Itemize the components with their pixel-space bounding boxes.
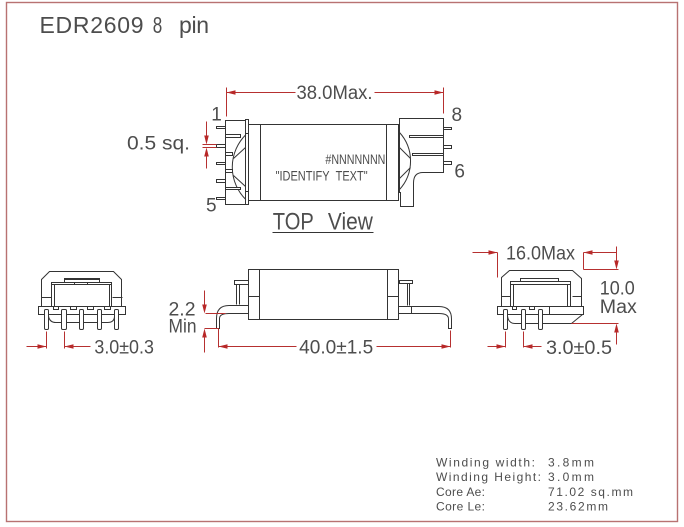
svg-text:16.0Max: 16.0Max bbox=[506, 244, 575, 265]
dimension 38.0Max extension line right bbox=[443, 88, 445, 114]
core outline (right end view) bbox=[502, 271, 582, 307]
body (front view) bbox=[249, 270, 399, 320]
pin 2 (left end view) bbox=[62, 310, 67, 330]
bobbin skirt (right end view) bbox=[508, 315, 583, 324]
svg-text:View: View bbox=[328, 209, 374, 236]
core gap ticks (right end view) bbox=[502, 296, 582, 298]
dimension 16.0Max extension lines bbox=[498, 253, 584, 278]
svg-text:5: 5 bbox=[206, 196, 217, 217]
bobbin body (top view) bbox=[249, 125, 399, 201]
dimension 3.0±0.3 extension lines bbox=[47, 332, 65, 349]
left top pin stub bbox=[235, 281, 249, 305]
svg-text:38.0Max.: 38.0Max. bbox=[297, 83, 373, 104]
bobbin flange rect (right end view) bbox=[511, 282, 571, 307]
pin 6 (top view) bbox=[444, 162, 452, 165]
base plate (left end view) bbox=[39, 307, 126, 315]
dimension 3.0±0.3 line + arrows bbox=[27, 344, 91, 349]
dimension 16.0Max line + arrows bbox=[473, 250, 617, 255]
pin 4 (left end view) bbox=[98, 310, 102, 330]
svg-text:Core Ae:: Core Ae: bbox=[436, 485, 485, 499]
svg-text:EDR2609: EDR2609 bbox=[40, 12, 144, 38]
core gap ticks bbox=[42, 297, 123, 299]
TOP View label bbox=[273, 209, 374, 236]
pin 3 (top view) bbox=[217, 163, 226, 165]
left bobbin flange (top view) bbox=[226, 120, 249, 205]
right top pin stub bbox=[400, 281, 413, 306]
core top boss (right end view) bbox=[521, 279, 559, 282]
svg-text:3.0±0.3: 3.0±0.3 bbox=[94, 338, 153, 359]
base plate notches (right end view) bbox=[513, 307, 550, 315]
pin 5 (left end view) bbox=[115, 310, 119, 330]
svg-text:Min: Min bbox=[169, 317, 197, 338]
dimension 2.2 Min texts bbox=[169, 300, 197, 338]
pin 8 (top view) bbox=[444, 128, 452, 130]
svg-text:8: 8 bbox=[452, 105, 463, 126]
left flange wire slots bbox=[226, 135, 241, 190]
dimension 38.0Max line + arrows bbox=[227, 90, 444, 95]
dimension 2.2 Min arrows bbox=[202, 291, 225, 353]
svg-text:6: 6 bbox=[454, 161, 465, 182]
svg-text:1: 1 bbox=[211, 105, 222, 126]
dimension 40.0±1.5 extension lines bbox=[219, 329, 451, 348]
pin 3 (left end view) bbox=[80, 310, 84, 330]
title EDR2609 8 pin bbox=[40, 12, 210, 38]
bobbin flange rect (left end view) bbox=[52, 283, 112, 307]
pin 1 (top view) bbox=[217, 127, 226, 129]
core top boss (left end view) bbox=[65, 279, 100, 283]
svg-text:Core Le:: Core Le: bbox=[436, 500, 485, 514]
right flange wire slots bbox=[410, 136, 444, 156]
dimension 40.0±1.5 line + arrows bbox=[219, 344, 451, 349]
right gull-wing pin bbox=[399, 307, 452, 329]
right gull pin divider bbox=[411, 307, 413, 314]
svg-text:pin: pin bbox=[179, 12, 209, 38]
right core dome fan bbox=[399, 132, 410, 190]
svg-text:Max: Max bbox=[600, 297, 638, 318]
dimension 3.0±0.5 extension lines bbox=[506, 332, 524, 348]
svg-text:0.5 sq.: 0.5 sq. bbox=[127, 133, 190, 154]
pin 7 (top view) bbox=[444, 146, 452, 149]
pin 5 (top view) bbox=[217, 198, 226, 200]
svg-text:TOP: TOP bbox=[273, 209, 314, 236]
svg-text:8: 8 bbox=[153, 12, 163, 38]
dimension 10.0 Max bbox=[572, 247, 619, 345]
pin 1 (right end view) bbox=[504, 310, 508, 330]
base plate (right end view) bbox=[498, 307, 584, 315]
dimension 38.0Max extension line left bbox=[226, 88, 228, 117]
svg-text:71.02 sq.mm: 71.02 sq.mm bbox=[548, 485, 633, 499]
pin 2 (top view) bbox=[217, 145, 226, 148]
pin 3 (right end view) bbox=[539, 310, 543, 330]
pin 2 (right end view) bbox=[522, 310, 526, 330]
svg-text:40.0±1.5: 40.0±1.5 bbox=[299, 337, 373, 358]
dimension 3.0±0.5 line + arrows bbox=[488, 344, 542, 349]
dimension 10.0 Max texts bbox=[600, 278, 638, 318]
svg-text:"IDENTIFY TEXT": "IDENTIFY TEXT" bbox=[276, 168, 368, 184]
left core dome fan bbox=[232, 135, 246, 200]
right bobbin flange with mounting tab (top view) bbox=[400, 119, 444, 207]
svg-text:#NNNNNNN: #NNNNNNN bbox=[325, 151, 385, 167]
base plate notches bbox=[54, 307, 111, 310]
pin 1 (left end view) bbox=[45, 310, 49, 330]
svg-text:3.0±0.5: 3.0±0.5 bbox=[546, 338, 612, 359]
pin 4 (top view) bbox=[217, 180, 226, 183]
svg-text:Winding width:: Winding width: bbox=[436, 455, 535, 469]
bobbin skirt (left end view) bbox=[49, 316, 115, 323]
core outline (left end view) bbox=[42, 272, 122, 307]
dimension 0.5 sq. arrows bbox=[203, 122, 217, 169]
svg-text:23.62mm: 23.62mm bbox=[548, 500, 608, 514]
left gull-wing pin bbox=[217, 306, 249, 329]
